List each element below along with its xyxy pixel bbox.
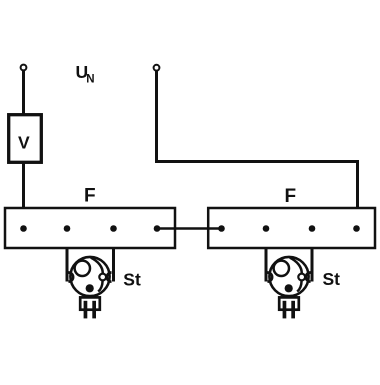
plug St2 left earth clip bbox=[268, 273, 273, 282]
wire node G to plug St2 left clip bbox=[265, 248, 268, 282]
plug St1 face circle bbox=[70, 257, 109, 296]
plug St1 rim arc lower bbox=[98, 281, 102, 292]
voltmeter U1 box bbox=[9, 115, 42, 163]
wire node C to plug St1 right clip bbox=[112, 248, 115, 282]
plug St2 prong left bbox=[283, 301, 287, 319]
plug St1 pin ring bbox=[99, 274, 106, 281]
node E bbox=[218, 225, 225, 232]
svg-text:N: N bbox=[86, 74, 94, 86]
svg-text:St: St bbox=[323, 269, 341, 289]
plug St1 right earth clip bbox=[107, 273, 112, 282]
svg-text:F: F bbox=[84, 186, 96, 207]
plug St1 pin hole bbox=[75, 261, 90, 276]
node A bbox=[20, 225, 27, 232]
plug St2 body bbox=[279, 297, 299, 309]
plug St1 prong left bbox=[84, 301, 88, 319]
terminal X2 bbox=[154, 65, 160, 71]
wire X2 feed to box F2 bbox=[157, 71, 358, 229]
plug St2 face rim arc bbox=[290, 258, 302, 274]
plug St1 face rim arc bbox=[91, 258, 103, 274]
plug St2 pin ring bbox=[298, 274, 305, 281]
node B bbox=[64, 225, 71, 232]
node K bbox=[353, 225, 360, 232]
plug St2 bbox=[266, 248, 312, 318]
wire X1 to voltmeter bbox=[22, 70, 25, 114]
plug St2 prong right bbox=[291, 301, 295, 319]
svg-text:St: St bbox=[123, 270, 141, 290]
plug St1 prong right bbox=[92, 301, 96, 319]
plug St1 body bbox=[80, 297, 100, 309]
wire link F1 to F2 bbox=[157, 227, 222, 230]
plug St1 screw dot bbox=[86, 284, 94, 292]
node G bbox=[263, 225, 270, 232]
fuse strip F2 box bbox=[208, 208, 375, 248]
plug St2 right earth clip bbox=[306, 273, 311, 282]
plug St2 screw dot bbox=[285, 284, 293, 292]
plug St2 pin hole bbox=[274, 261, 289, 276]
terminal X1 bbox=[21, 65, 27, 71]
node D bbox=[154, 225, 161, 232]
wire node H to plug St2 right clip bbox=[311, 248, 314, 282]
plug St2 face circle bbox=[269, 257, 308, 296]
node H bbox=[309, 225, 316, 232]
wire node B to plug St1 left clip bbox=[66, 248, 69, 282]
wire voltmeter to node A bbox=[22, 163, 25, 229]
svg-text:V: V bbox=[18, 132, 30, 152]
plug St1 bbox=[67, 248, 114, 318]
fuse strip F1 box bbox=[5, 208, 175, 248]
node C bbox=[110, 225, 117, 232]
plug St1 left earth clip bbox=[69, 273, 74, 282]
svg-text:F: F bbox=[285, 186, 297, 207]
plug St2 rim arc lower bbox=[297, 281, 301, 292]
